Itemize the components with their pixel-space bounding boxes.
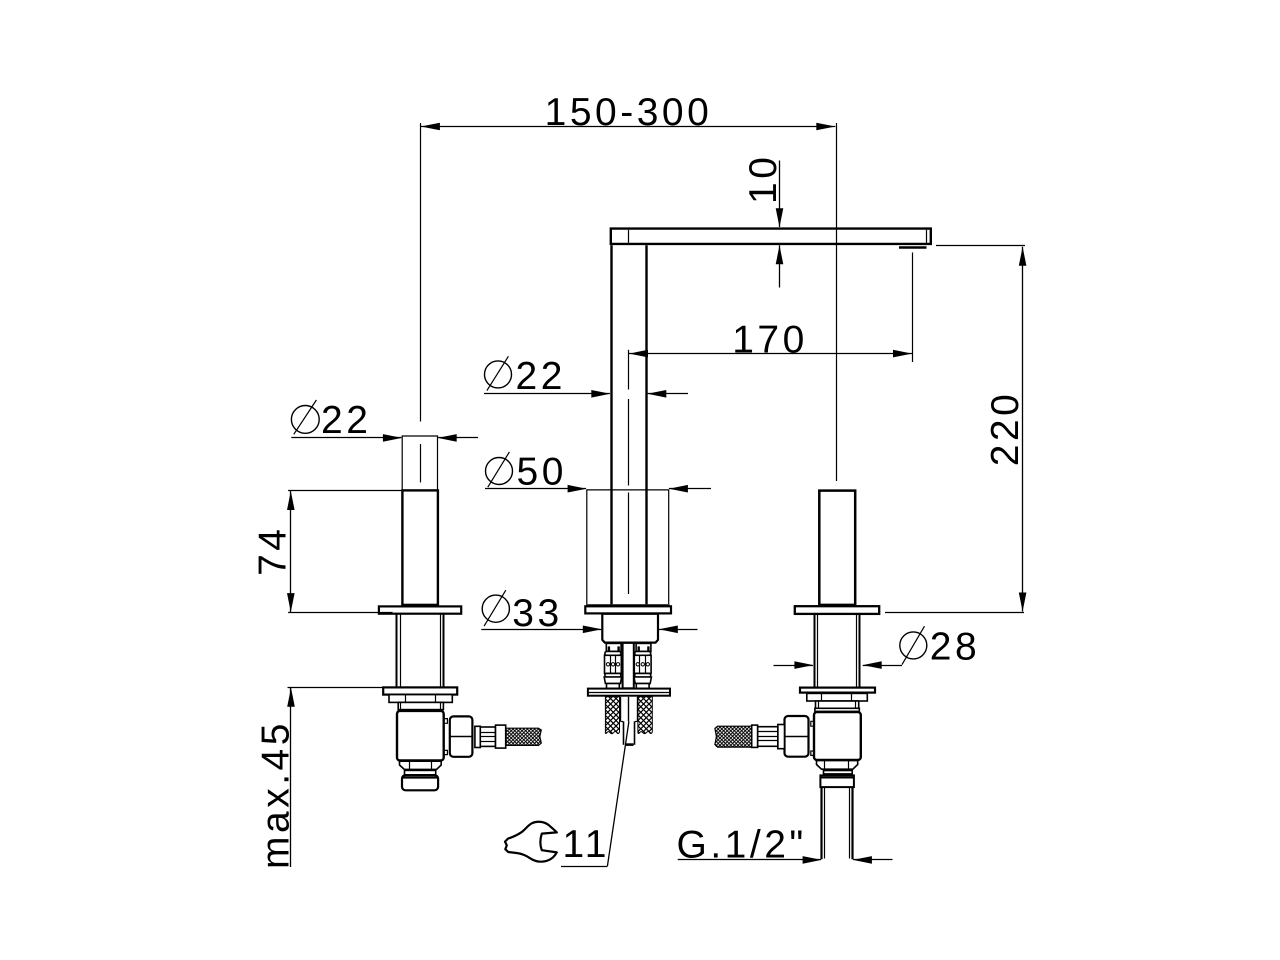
dimension 74: [252, 491, 402, 613]
center hose left: [604, 643, 621, 688]
right bottom ring: [824, 771, 853, 774]
left handle flange: [379, 606, 461, 613]
wrench icon: [505, 822, 557, 862]
right handle shank: [815, 614, 860, 687]
center outlet pipes below plate: [620, 697, 637, 746]
left locking nut: [389, 695, 452, 703]
svg-text:22: 22: [321, 399, 371, 442]
svg-text:11: 11: [563, 823, 611, 866]
dimension 150-300: [421, 91, 835, 134]
right valve body: [814, 712, 861, 760]
right bottom nut: [820, 775, 854, 787]
svg-text:28: 28: [930, 625, 980, 668]
right side hex nut: [785, 716, 809, 757]
label diameter 22 left: [291, 399, 478, 442]
spout riser column: [612, 245, 647, 604]
dimension max.45: [255, 688, 383, 869]
left handle upper column 22mm: [402, 436, 437, 490]
right locking nut: [807, 693, 868, 701]
label G.1/2": [677, 824, 893, 867]
right braided hose: [715, 726, 752, 747]
svg-text:150-300: 150-300: [545, 91, 713, 134]
svg-text:10: 10: [742, 154, 785, 204]
center hose right: [634, 643, 651, 688]
right handle column: [819, 491, 855, 605]
svg-text:33: 33: [512, 592, 562, 635]
left handle shank: [397, 614, 444, 687]
riser top flange: [585, 606, 671, 613]
right hose collar: [778, 725, 785, 749]
left handle lower column: [402, 490, 438, 605]
extension line / hot handle centerline: [420, 123, 422, 422]
svg-text:170: 170: [732, 318, 808, 361]
dimension 170: [629, 253, 913, 363]
left hose nipple: [480, 727, 495, 746]
leader line 11: [561, 722, 629, 867]
center supply pipe: [623, 643, 634, 688]
left collar: [398, 702, 443, 709]
spout bar: [611, 229, 931, 248]
left handle centerline dash: [420, 444, 422, 482]
right escutcheon plate: [800, 688, 875, 693]
svg-text:50: 50: [517, 450, 567, 493]
left escutcheon plate: [383, 687, 457, 694]
extension line / cold handle centerline: [836, 123, 838, 481]
left valve body: [397, 711, 444, 761]
left side hex nut: [450, 716, 473, 756]
svg-text:22: 22: [516, 355, 566, 398]
riser neck 33mm: [602, 614, 658, 643]
center escutcheon plate: [588, 689, 670, 696]
label diameter 28: [774, 625, 981, 669]
left hose end collar: [496, 725, 506, 748]
right inlet pipe G1/2: [822, 787, 853, 859]
svg-text:220: 220: [984, 391, 1027, 467]
hatch block right (counter): [638, 697, 652, 734]
dimension 220: [885, 246, 1027, 613]
label diameter 33: [481, 590, 697, 635]
svg-text:max.45: max.45: [255, 720, 298, 869]
right handle flange: [795, 606, 879, 614]
riser centerline: [628, 350, 630, 594]
label diameter 50: [485, 450, 711, 493]
label diameter 22 riser: [484, 355, 688, 398]
left bottom adapter: [400, 761, 442, 769]
left bottom ring: [405, 770, 436, 775]
left bottom cap: [402, 775, 438, 790]
left hose collar: [475, 726, 480, 747]
hatch block left (counter): [605, 697, 619, 734]
right bottom adapter: [817, 761, 858, 770]
riser base (50mm): [586, 490, 670, 606]
svg-text:74: 74: [252, 526, 295, 576]
right collar: [815, 701, 859, 711]
dimension 10: [742, 154, 785, 288]
left braided hose: [506, 728, 542, 745]
right hose nipple: [758, 727, 778, 747]
right hose end collar: [752, 725, 758, 747]
